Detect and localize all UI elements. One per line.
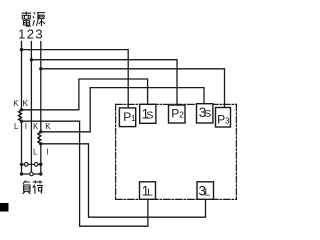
load bus row 2 <box>22 173 41 175</box>
terminal box 1S <box>140 104 156 123</box>
terminal boxes <box>119 104 230 200</box>
wire: source line 1 vertical <box>21 42 23 110</box>
svg-text:1: 1 <box>18 27 25 42</box>
svg-text:l: l <box>25 122 27 131</box>
svg-text:K: K <box>23 99 29 108</box>
terminal box 3L <box>197 182 214 200</box>
terminal box P3 <box>216 108 231 128</box>
wire: CT1 l to 1L <box>22 121 148 226</box>
wire: source line 3 vertical <box>40 42 42 132</box>
junction dots <box>20 48 43 176</box>
svg-text:K: K <box>33 122 39 131</box>
svg-text:K: K <box>45 122 51 131</box>
wire: CT2 l to 3L <box>41 144 206 217</box>
load bus row 1 <box>22 163 41 165</box>
CT1 zigzag (current transformer on line 1) <box>19 110 22 121</box>
wire: line3 to P3 <box>41 69 225 108</box>
荷 <box>33 180 43 193</box>
CT2 zigzag (current transformer on line 3) <box>38 132 41 144</box>
source phase numbers 1 2 3 <box>18 27 42 42</box>
box labels <box>123 105 230 199</box>
black page mark <box>0 203 9 212</box>
wire: CT2 k to 3S <box>41 88 204 132</box>
wire: source line 2 vertical <box>30 42 32 173</box>
load terminal circles <box>24 163 38 176</box>
terminal box P2 <box>169 105 186 123</box>
wire: line1 to P1 <box>22 50 129 109</box>
kanji 電源 (power source) hand-drawn <box>22 12 46 27</box>
kanji 負荷 (load) hand-drawn <box>23 180 43 193</box>
svg-text:1S: 1S <box>142 107 154 122</box>
源 <box>33 12 45 26</box>
svg-text:L: L <box>14 122 19 131</box>
svg-text:3: 3 <box>35 27 42 42</box>
svg-text:L: L <box>33 148 38 157</box>
負 <box>23 181 31 194</box>
svg-text:2: 2 <box>27 27 34 42</box>
enclosure chain boundary (dash-dot rectangle) <box>116 104 237 199</box>
電 <box>22 12 32 27</box>
terminal box P1 <box>119 108 135 127</box>
CT terminal letters <box>13 99 51 157</box>
terminal box 1L <box>140 182 156 200</box>
svg-text:K: K <box>13 99 19 108</box>
terminal box 3S <box>197 104 213 123</box>
svg-text:3S: 3S <box>199 105 212 120</box>
wire: line2 to P2 <box>31 60 177 106</box>
svg-text:l: l <box>47 148 49 157</box>
wire: CT1 k to 1S <box>22 79 148 110</box>
